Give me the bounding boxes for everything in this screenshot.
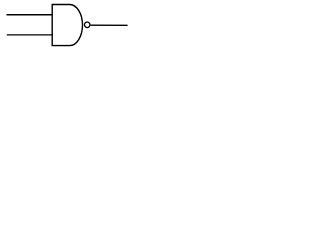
nand gate U1 body	[52, 5, 82, 46]
wire input A	[7, 14, 53, 16]
wire output Y	[91, 24, 128, 26]
wire input B	[7, 34, 53, 36]
inversion bubble	[84, 22, 90, 28]
